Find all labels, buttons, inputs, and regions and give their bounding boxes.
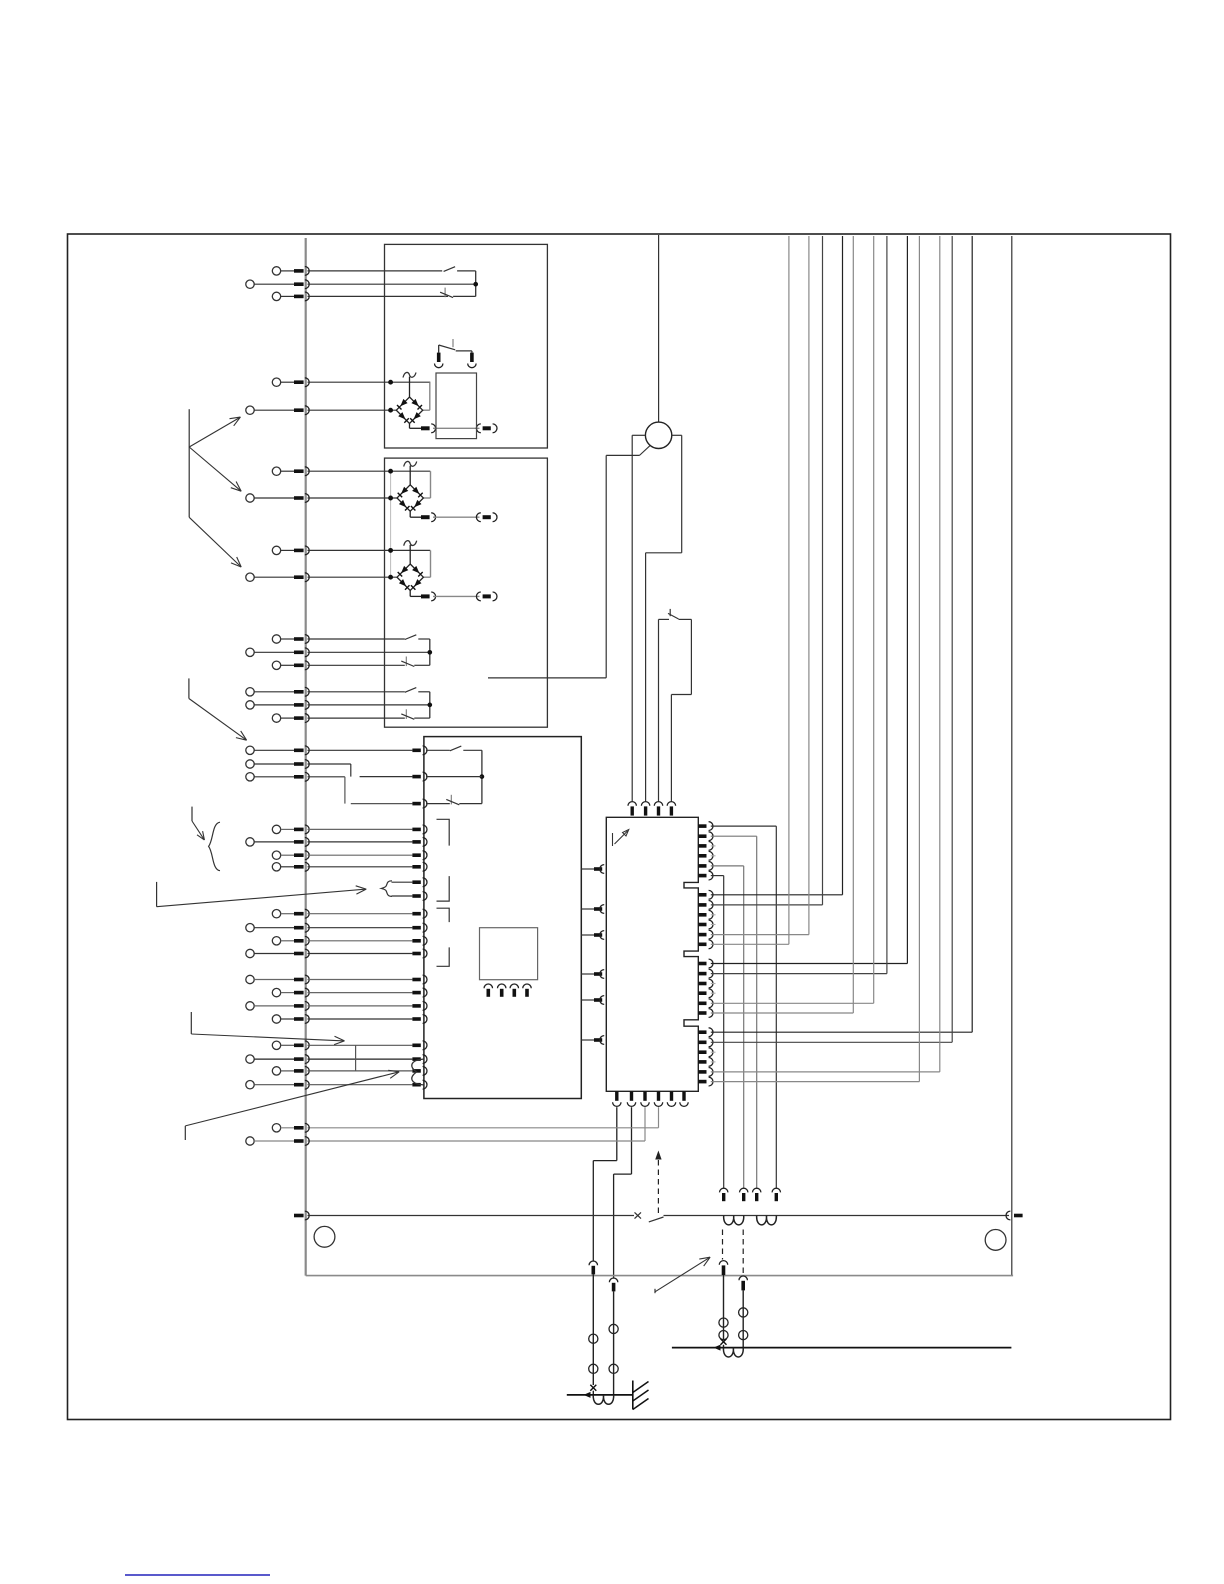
leader arrow to jog rows <box>191 1012 344 1045</box>
wire motor line 2 down with jog <box>646 435 682 801</box>
F2a insulator beads <box>719 1318 728 1340</box>
outer border frame <box>68 234 1171 1420</box>
switch S2 above T1 <box>439 339 472 351</box>
connector J8-10 row <box>272 988 412 997</box>
connector J7-3 row <box>246 772 345 781</box>
busbar left pin <box>294 1211 309 1220</box>
connector J5-1 row <box>272 635 405 644</box>
switch blade at motor (diagonal) <box>640 446 650 456</box>
wire S5 right leg to U2 pin <box>670 695 672 802</box>
jog wire J7-3 to pin <box>345 777 413 804</box>
wire motor line 1 down to U2 pin <box>631 435 633 801</box>
connector J1-1 row <box>272 267 442 276</box>
connector J8-11 row <box>246 1002 413 1011</box>
wire U1-U2 link 6 <box>581 1036 606 1045</box>
U2 right pin g3-2 wire up x886 <box>698 236 887 978</box>
connector J3-1 row (bridge BR2 ac1) <box>272 467 430 476</box>
busbar switch blade <box>649 1217 664 1222</box>
panel mounting hole right <box>985 1230 1006 1251</box>
U1 left pin y803 <box>412 802 420 806</box>
leader arrow to J7 rows <box>189 678 247 740</box>
F1a crimp mark <box>590 1385 596 1395</box>
connector J10-2 row <box>246 1137 309 1146</box>
relay box T1 (in box A) <box>436 373 477 439</box>
feed pin above busbar 2 <box>740 1188 748 1201</box>
U1 left pin y913 <box>412 912 420 916</box>
wire U2 bot4 to connector <box>308 1107 659 1128</box>
connector J3-2 row (bridge BR2 ac2) <box>246 494 397 503</box>
U2 right pin g1-1 wire down x756 <box>698 832 756 1189</box>
busbar switch cross <box>635 1212 642 1218</box>
leader fork to bridge inputs <box>189 409 241 567</box>
s-loop for U1 pins 1059/1087 <box>412 1059 424 1085</box>
U1 left pin y1019 <box>412 1017 420 1021</box>
ac bus tie line with junction dots <box>389 469 393 579</box>
wire S6 row1 inside <box>426 749 450 751</box>
busbar grommet loop pair A <box>724 1216 744 1225</box>
U1 left pin y750 <box>412 749 420 753</box>
U2 right pin g4-2 wire up x952 <box>698 236 952 1047</box>
T1 top pin 1 <box>435 345 443 368</box>
ground loop pair 1 <box>593 1395 613 1404</box>
connector J8-7 row <box>272 936 412 945</box>
switch S6 (trio in box C) <box>446 746 483 805</box>
motor M (circle) <box>645 422 671 448</box>
F2b insulator beads <box>739 1308 748 1340</box>
connector J5-3 row <box>272 661 405 670</box>
wire node A horizontal <box>606 454 639 456</box>
U2 bottom pin 6 <box>680 1091 688 1106</box>
BR1 input junction dots <box>389 380 393 412</box>
feed pin above busbar 4 <box>772 1188 780 1201</box>
wire U1-U2 link 5 <box>581 996 606 1005</box>
box B (rectifier unit) <box>385 458 548 727</box>
U2 right pin g3 stub 4 <box>698 989 715 998</box>
connector J8-5 row <box>272 909 412 918</box>
switch S4 (trio in box B) <box>401 688 431 720</box>
U2 right pin g2-5 wire up x808 <box>698 236 809 939</box>
wire U2 bot2 to feedthrough F1b <box>614 1107 632 1278</box>
F1b insulator beads <box>609 1324 618 1373</box>
wire node A to box B <box>488 677 606 679</box>
group bracket B2 in U1 <box>437 908 450 966</box>
U1 left pin y979 <box>412 978 420 982</box>
wire motor left lead <box>632 434 645 436</box>
feedthrough F2b pin <box>739 1276 747 1290</box>
T1 top pin 2 <box>468 351 476 368</box>
wire S6 row3 inside <box>426 803 450 805</box>
dashed pass line a <box>722 1230 724 1260</box>
ground bus 2 <box>672 1347 1012 1349</box>
wire S5 left leg to U2 pin <box>658 619 660 801</box>
wire S6 row2 inside <box>426 776 482 778</box>
connector J8-8 row <box>246 949 413 958</box>
connector J6-1 row <box>246 687 405 696</box>
connector J8-1 row <box>272 825 412 834</box>
inner module pin 1 <box>484 984 492 997</box>
U2 top pin 2 <box>641 802 649 816</box>
group bracket B1 in U1 <box>437 819 450 901</box>
feedthrough F1a pin <box>589 1261 597 1274</box>
busbar line left <box>308 1215 635 1217</box>
U1 left pin y927 <box>412 926 420 930</box>
U1 left pin y953 <box>412 952 420 956</box>
bridge rectifier BR3 <box>397 541 497 601</box>
connector J2-2 row (bridge BR1 ac2) <box>246 406 396 415</box>
chassis ground symbol <box>633 1381 649 1410</box>
U2 top pin 3 <box>654 802 662 816</box>
connector J1-2 row <box>246 280 476 289</box>
wire U1-U2 link 4 <box>581 970 606 979</box>
U2 right pin g3-1 wire up x907 <box>698 236 907 968</box>
connector J8-9 row <box>246 975 413 984</box>
wire F2a down <box>723 1275 725 1339</box>
U1 left pin y940 <box>412 939 420 943</box>
U2 top pin 1 <box>628 802 636 816</box>
wire U1-U2 link 3 <box>581 931 606 940</box>
U2 right pin g2-1 wire up x842 <box>698 236 842 899</box>
inner module pin 3 <box>510 984 518 997</box>
U1 left pin y992 <box>412 991 420 995</box>
wire vertical feed to motor M <box>658 235 660 422</box>
U2 right pin g3 stub 3 <box>698 979 715 988</box>
U2 bottom pin 1 <box>613 1091 621 1106</box>
busbar line right <box>664 1215 1010 1217</box>
wire U1-U2 link 2 <box>581 905 606 914</box>
U2 right pin g3-5 wire up x873 <box>698 236 873 1008</box>
U2 right pin g1-3 wire down x723 <box>698 871 723 1188</box>
long vertical net 13 <box>1011 236 1013 1276</box>
feed pin above busbar 1 <box>720 1188 728 1201</box>
U2 right pin g2 stub 3 <box>698 910 715 919</box>
wire S5 loop <box>659 619 692 694</box>
connector J8-3 row <box>272 851 412 860</box>
U1 left pin y1059 <box>412 1057 420 1061</box>
F1a insulator beads <box>589 1334 598 1373</box>
box D (interface unit U2) <box>606 817 698 1091</box>
U2 right pin g3-6 wire up x853 <box>698 236 853 1017</box>
U2 right pin g1 stub 3 <box>698 842 715 851</box>
connector J8-12 row <box>272 1015 412 1024</box>
busbar grommet loop pair B <box>757 1216 777 1225</box>
U2 right pin g2-6 wire up x788 <box>698 236 789 949</box>
wire U2 bot3 to connector <box>308 1107 646 1141</box>
inner module box in U1 <box>480 928 538 980</box>
U1 left pin y882 <box>412 880 420 884</box>
bulkhead panel line (long vertical) <box>305 238 307 1276</box>
blue link underline <box>125 1574 270 1576</box>
connector J8-4 row <box>272 862 412 871</box>
panel bottom edge <box>306 1275 1013 1277</box>
U2 right pin g4 stub 4 <box>698 1058 715 1067</box>
U1 left pin y776 <box>412 775 420 779</box>
U2 bottom pin 3 <box>641 1091 649 1106</box>
U2 right pin g2-2 wire up x822 <box>698 236 822 909</box>
U2 right pin g2 stub 4 <box>698 920 715 929</box>
U1 left pin y1070 <box>412 1069 420 1073</box>
box C (control unit U1) <box>424 737 581 1099</box>
U1 left pin y896 <box>412 894 420 898</box>
U2 right pin g4 stub 3 <box>698 1048 715 1057</box>
dashed pass line b <box>742 1230 744 1275</box>
feedthrough F1b pin <box>609 1278 617 1291</box>
box A (upper relay unit) <box>385 244 548 448</box>
F2a crimp mark <box>721 1339 727 1348</box>
wire U1-U2 link 1 <box>581 865 606 874</box>
connector J10-1 row <box>272 1123 309 1132</box>
U2 right pin g1 stub 4 <box>698 851 715 860</box>
switch S5 sub-circuit (tick+blade) <box>668 609 679 619</box>
connector J9-1 row <box>272 1041 412 1050</box>
inner module pin 4 <box>523 984 531 997</box>
U2 right pin g4-5 wire up x939 <box>698 236 940 1076</box>
bridge rectifier BR1 <box>396 372 497 432</box>
jog tie J9-1/J9-3 <box>355 1045 357 1071</box>
connector J1-3 row <box>272 292 448 301</box>
connector J5-2 row <box>246 648 430 657</box>
ground bus 2 arrowhead <box>714 1345 721 1351</box>
connector J9-4 row <box>246 1080 413 1089</box>
inner module pin 2 <box>498 984 506 997</box>
wire F2b down <box>742 1290 744 1347</box>
U2 right pin g4-1 wire up x972 <box>698 236 972 1037</box>
U1 left pin y1084 <box>412 1083 420 1087</box>
feed pin above busbar 3 <box>753 1188 761 1201</box>
connector J8-6 row <box>246 923 413 932</box>
connector J6-3 row <box>272 714 405 723</box>
panel mounting hole left <box>314 1226 335 1247</box>
U2 actuate arrow <box>613 830 629 847</box>
U2 bottom pin 2 <box>627 1091 635 1106</box>
connector J9-3 row <box>272 1067 412 1076</box>
U2 bottom pin 4 <box>654 1091 662 1106</box>
U2 bottom pin 5 <box>667 1091 675 1106</box>
U1 left pin y866 <box>412 865 420 869</box>
connector J7-1 row <box>246 746 413 755</box>
ground bus 1 arrowhead <box>584 1392 591 1398</box>
U2 right pin g1-2 wire down x743 <box>698 862 743 1189</box>
U2 right pin g1-0 wire down x776 <box>698 822 776 1189</box>
connector J2-1 row (bridge BR1 ac1) <box>272 378 430 387</box>
switch S3 (trio in box B) <box>401 635 431 667</box>
U1 left pin y855 <box>412 853 420 857</box>
feedthrough F2a pin <box>719 1261 727 1275</box>
long leader arrow to brace <box>157 882 367 907</box>
brace for U1 pins 882/896 <box>381 881 412 897</box>
connector J8-2 row <box>246 838 413 847</box>
chevron brace annotation <box>192 807 220 871</box>
wire U2 bot1 to feedthrough F1a <box>593 1107 617 1261</box>
connector J4-2 row (bridge BR3 ac2) <box>246 573 397 582</box>
connector J9-2 row <box>246 1055 413 1064</box>
ground loop pair 2 <box>723 1348 743 1357</box>
wire node A vertical <box>605 455 607 678</box>
U1 left pin y829 <box>412 828 420 832</box>
jog wire J7-2 to pin <box>351 764 413 777</box>
U1 left pin y841 <box>412 840 420 844</box>
leader arrow to feedthrough F2 <box>655 1257 710 1293</box>
bridge rectifier BR2 <box>397 461 497 521</box>
U1 left pin y1045 <box>412 1044 420 1048</box>
connector J4-1 row (bridge BR3 ac1) <box>272 546 430 555</box>
U2 top pin 4 <box>667 802 675 816</box>
long leader arrow to s-loop <box>185 1070 399 1140</box>
U2 right pin g4-6 wire up x919 <box>698 236 919 1086</box>
U1 left pin y1005 <box>412 1004 420 1008</box>
busbar right pin <box>1006 1211 1023 1220</box>
ground bus 1 <box>567 1394 633 1396</box>
dashed actuator arrow <box>655 1151 661 1214</box>
wire F1a down <box>592 1274 594 1385</box>
wire F1b down <box>613 1291 615 1395</box>
connector J7-2 row <box>246 760 351 769</box>
wire motor right lead <box>672 434 682 436</box>
connector J6-2 row <box>246 701 430 710</box>
switch S1 (top trio in box A) <box>440 267 477 298</box>
